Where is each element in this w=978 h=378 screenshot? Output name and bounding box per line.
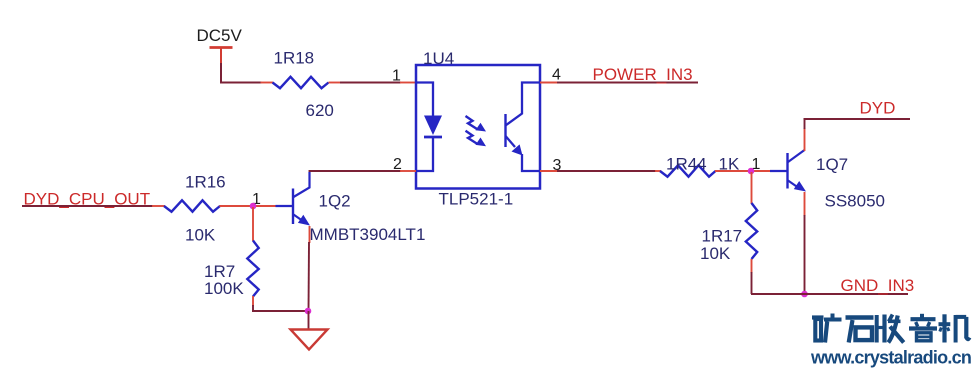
wire R17 to GND_IN3 xyxy=(751,272,753,294)
junction node A xyxy=(250,203,257,210)
svg-text:1U4: 1U4 xyxy=(423,49,454,68)
pin lead opto pin1 xyxy=(400,82,416,84)
light arrow 2 xyxy=(466,131,487,147)
Q2 emitter arrow xyxy=(298,215,310,226)
LED cathode lead (U4 internal) xyxy=(416,138,433,171)
svg-text:1R17: 1R17 xyxy=(702,227,743,246)
pin lead Q7 emitter xyxy=(804,192,806,216)
transistor Q2 xyxy=(276,172,311,226)
svg-text:10K: 10K xyxy=(700,244,731,263)
pin lead Q7 collector xyxy=(804,128,806,151)
wire DYD xyxy=(804,118,911,129)
svg-text:100K: 100K xyxy=(204,279,244,298)
svg-text:DYD: DYD xyxy=(860,99,896,118)
transistor Q7 xyxy=(770,150,806,192)
LED anode lead (U4 internal) xyxy=(416,83,433,117)
wire ground stem xyxy=(308,311,310,329)
wire R7 to ground rail xyxy=(252,305,308,311)
svg-text:1R16: 1R16 xyxy=(185,173,226,192)
opto-coupler U4 box xyxy=(416,65,540,189)
junction node D xyxy=(801,291,808,298)
wire Q2 emitter to ground xyxy=(308,242,311,311)
watermark logo KuangShiShouYinJi xyxy=(812,314,970,343)
svg-text:DC5V: DC5V xyxy=(197,26,243,45)
power symbol DC5V xyxy=(210,48,233,65)
svg-text:4: 4 xyxy=(552,67,561,84)
svg-text:1: 1 xyxy=(392,68,401,85)
svg-text:1Q2: 1Q2 xyxy=(319,192,351,211)
svg-text:MMBT3904LT1: MMBT3904LT1 xyxy=(310,225,426,244)
pin lead Q2 emitter xyxy=(309,226,311,243)
char ji xyxy=(939,314,970,342)
svg-text:10K: 10K xyxy=(185,226,216,245)
light arrow 1 xyxy=(466,116,487,132)
svg-text:2: 2 xyxy=(393,156,402,173)
pin lead R18 left xyxy=(261,82,274,84)
char shi xyxy=(846,318,874,343)
svg-text:620: 620 xyxy=(306,101,334,120)
resistor 1R7 xyxy=(247,241,258,297)
pin lead R16 left xyxy=(152,205,165,207)
wire Q7 emitter to GND_IN3 xyxy=(804,215,806,294)
Q2 emitter lead xyxy=(294,215,306,223)
pin lead opto pin2 xyxy=(400,170,416,172)
svg-text:1Q7: 1Q7 xyxy=(816,155,848,174)
svg-text:GND_IN3: GND_IN3 xyxy=(841,276,915,295)
pin lead R44 left xyxy=(655,170,661,172)
wire opto pin3 to R44 xyxy=(557,170,656,172)
ground xyxy=(291,330,328,350)
phototransistor collector (U4 internal) xyxy=(506,83,541,126)
char kuang xyxy=(812,314,842,343)
pin lead R7 top xyxy=(252,207,254,241)
char shou xyxy=(877,315,904,343)
pin lead R44 right / wire to node xyxy=(715,170,770,172)
Q7 emitter lead xyxy=(788,181,800,189)
wire GND_IN3 xyxy=(751,293,908,295)
svg-text:www.crystalradio.cn: www.crystalradio.cn xyxy=(810,348,971,368)
pin lead R18 right xyxy=(329,82,342,84)
svg-text:SS8050: SS8050 xyxy=(825,192,886,211)
junction node B xyxy=(748,168,755,175)
LED cathode bar xyxy=(424,136,442,139)
Q2 base bar xyxy=(292,189,294,225)
wire DC5V to R18 xyxy=(220,82,262,84)
phototransistor emitter (U4 internal) xyxy=(506,136,516,147)
svg-text:TLP521-1: TLP521-1 xyxy=(439,190,514,209)
svg-text:1R44: 1R44 xyxy=(666,155,707,174)
Q7 base lead xyxy=(770,170,788,172)
wire DC5V stem xyxy=(220,63,222,83)
wire R18 to opto pin1 xyxy=(340,82,401,84)
char yin xyxy=(909,314,937,341)
resistor 1R18 xyxy=(273,77,329,88)
Q7 emitter arrow xyxy=(794,181,806,192)
Q2 collector lead xyxy=(294,172,310,197)
wire DYD_CPU_OUT xyxy=(22,205,153,207)
Q7 collector lead xyxy=(788,150,805,162)
pin lead R17 bottom xyxy=(751,259,753,273)
resistor 1R16 xyxy=(164,200,220,211)
pin lead R7 bottom xyxy=(252,296,254,306)
Q7 base bar xyxy=(786,153,788,189)
svg-text:1R18: 1R18 xyxy=(274,49,315,68)
Q2 base lead xyxy=(276,205,294,207)
wire POWER_IN3 xyxy=(557,82,698,84)
resistor 1R17 xyxy=(746,203,757,259)
resistor 1R44 xyxy=(660,165,716,176)
LED D1 triangle xyxy=(424,116,442,136)
svg-text:POWER_IN3: POWER_IN3 xyxy=(593,65,693,84)
pin lead R16 right / wire to node xyxy=(220,205,277,207)
wire Q2 collector to opto pin2 xyxy=(310,171,402,172)
junction node C xyxy=(305,308,312,315)
phototransistor base bar (U4) xyxy=(504,114,506,147)
pin lead R17 top xyxy=(751,172,753,204)
pin lead opto pin3 xyxy=(540,170,558,172)
pin lead opto pin4 xyxy=(540,82,558,84)
